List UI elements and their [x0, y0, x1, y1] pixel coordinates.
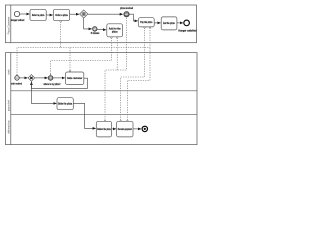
svg-text:Pay the pizza: Pay the pizza [140, 21, 153, 24]
svg-text:pizza: pizza [112, 31, 118, 33]
svg-text:where is my pizza?: where is my pizza? [44, 84, 61, 86]
svg-text:Deliver the pizza: Deliver the pizza [97, 128, 111, 131]
task Eat the pizza [161, 17, 177, 30]
message flow where is my pizza: Ask for the pizza -> event [51, 38, 112, 76]
lane divider clerk / pizza chef [11, 90, 197, 92]
message anchor circles [60, 21, 151, 122]
pool Pizza Vendor [6, 53, 198, 145]
svg-text:Hunger noticed: Hunger noticed [11, 19, 25, 22]
timer event 60 minutes [93, 27, 98, 32]
message flow receipt: Pay the pizza -> long horizontal [149, 28, 151, 48]
svg-text:Calm customer: Calm customer [67, 77, 83, 80]
wire Receive payment -> end [133, 128, 141, 130]
wire start -> gateway [19, 77, 27, 79]
svg-text:clerk: clerk [8, 69, 11, 75]
start event order received [15, 75, 20, 81]
svg-text:pizza chef: pizza chef [8, 100, 11, 112]
wire Pay -> Eat [154, 22, 160, 24]
wire gateway -> where is my pizza [35, 77, 48, 79]
task Deliver the pizza [96, 121, 111, 137]
task Bake the pizza [57, 98, 73, 110]
end event vendor [142, 126, 147, 131]
wire gateway -> pizza received [88, 13, 123, 15]
message flow pizza: Deliver the pizza -> pizza received [105, 18, 127, 121]
gateway X vendor [28, 75, 35, 82]
wire Eat -> end [177, 22, 183, 24]
svg-text:order received: order received [11, 83, 22, 85]
gateway event-based [80, 10, 88, 18]
event where is my pizza [48, 74, 53, 80]
event pizza received [124, 12, 129, 17]
wire Select -> Order [46, 14, 52, 16]
wire Deliver -> Receive payment [112, 128, 116, 130]
svg-text:Order a pizza: Order a pizza [55, 15, 68, 17]
message flow calm: -> Calm customer [69, 48, 71, 71]
svg-text:Select a pizza: Select a pizza [32, 14, 45, 17]
message flow money: Pay the pizza -> Receive payment [121, 28, 145, 121]
task Pay the pizza [138, 18, 154, 27]
svg-text:Receive payment: Receive payment [118, 128, 132, 131]
wire Order -> gateway [70, 13, 79, 15]
message flow receipt2: Receive payment col2 [127, 48, 150, 121]
wire timer -> Ask for the pizza [97, 28, 106, 31]
task Order a pizza [53, 9, 69, 20]
svg-text:pizza received: pizza received [120, 8, 133, 10]
wire gateway -> timer [84, 18, 92, 29]
wire gateway -> Bake the pizza [31, 81, 56, 103]
message flow from Ask for the pizza col2 [116, 38, 118, 70]
start event Hunger noticed [14, 11, 19, 16]
svg-text:delivery boy: delivery boy [8, 120, 11, 134]
wire Bake -> Deliver [73, 103, 95, 128]
end event Hunger satisfied [184, 20, 190, 26]
wire pizza received -> Pay the pizza [129, 14, 137, 21]
wire where is my pizza -> Calm customer [53, 77, 65, 79]
task Calm customer [66, 72, 84, 85]
task Select a pizza [30, 9, 46, 20]
task Ask for the pizza [107, 24, 123, 37]
wire start -> Select a pizza [20, 13, 30, 15]
pool Pizza Customer [6, 5, 197, 43]
task Receive payment [117, 121, 133, 137]
svg-text:Bake the pizza: Bake the pizza [58, 103, 73, 106]
lane divider pizza chef / delivery boy [11, 114, 197, 116]
message flow pizza order: Order a pizza -> Order received [17, 22, 61, 76]
svg-text:60 minutes: 60 minutes [91, 32, 100, 35]
svg-text:Ask for the: Ask for the [109, 27, 122, 30]
svg-text:Eat the pizza: Eat the pizza [163, 22, 175, 25]
wire loop Calm customer -> gateway [31, 78, 87, 88]
svg-text:Hunger satisfied: Hunger satisfied [178, 29, 197, 32]
